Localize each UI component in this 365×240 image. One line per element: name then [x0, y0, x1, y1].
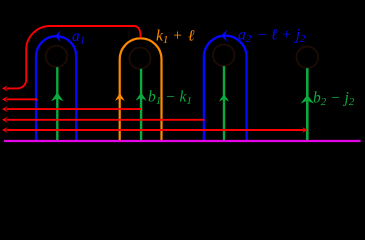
orange arrowhead on left leg — [115, 93, 125, 101]
blue arch a1 — [36, 36, 76, 140]
puncture circle 2 — [129, 48, 150, 69]
arrowhead on arch a1 apex — [55, 30, 61, 42]
svg-text:b1 − k1: b1 − k1 — [148, 89, 192, 108]
green arc 3 — [223, 66, 225, 140]
red curve (big arc from left into orange arch apex) — [7, 26, 141, 88]
arrowhead E left — [2, 127, 8, 133]
puncture circle 3 — [213, 44, 235, 66]
red strand C — [7, 108, 142, 110]
arrowhead E right — [302, 127, 308, 133]
orange arch k1+l — [120, 38, 162, 140]
red strand E — [7, 129, 304, 131]
arrowhead C — [2, 106, 8, 112]
arrowhead on arch a2 apex — [221, 30, 228, 42]
puncture circle 1 — [46, 46, 67, 67]
magenta boundary line — [4, 140, 361, 142]
arrowhead B — [2, 96, 8, 102]
green arrow 4 — [301, 95, 314, 104]
red strand D — [7, 119, 205, 121]
green arc 2 — [140, 69, 142, 140]
puncture circle 4 — [297, 47, 319, 69]
green arrow 3 — [219, 94, 229, 102]
red strand B — [7, 98, 38, 100]
green arc 1 — [56, 67, 58, 140]
green arrow 2 — [136, 92, 147, 100]
arrowhead D — [2, 117, 8, 123]
blue arch a2 — [204, 36, 247, 141]
green arrow 1 — [51, 92, 64, 101]
svg-text:k1 + ℓ: k1 + ℓ — [156, 28, 195, 47]
svg-text:b2 − j2: b2 − j2 — [313, 90, 355, 109]
red arrowhead curve end — [2, 86, 8, 92]
green arc 4 — [306, 68, 309, 140]
